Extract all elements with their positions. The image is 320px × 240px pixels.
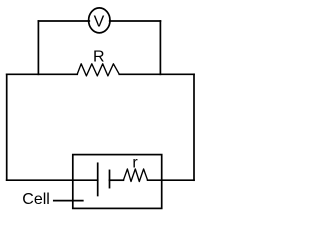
wire left vertical <box>6 74 8 180</box>
wire main left (to resistor R) <box>7 73 78 75</box>
wire left stub (voltmeter branch left vertical) <box>37 21 39 74</box>
wire bottom right (r to right wire) <box>148 179 194 181</box>
svg-text:R: R <box>93 48 105 65</box>
wire bottom left (to battery plate) <box>7 179 98 181</box>
wire top-right (voltmeter branch right horizontal) <box>110 20 161 22</box>
svg-text:r: r <box>132 155 138 172</box>
wire top-left (voltmeter branch left horizontal) <box>38 20 89 22</box>
voltmeter V1 circle <box>89 8 110 33</box>
resistor R zigzag <box>77 64 119 76</box>
battery short plate <box>109 170 111 187</box>
cell box outline <box>73 155 162 209</box>
wire main right (from resistor R) <box>119 73 194 75</box>
svg-text:V: V <box>94 14 105 31</box>
resistor r zigzag <box>123 169 147 182</box>
wire bottom middle (battery to r) <box>110 179 124 181</box>
svg-text:Cell: Cell <box>22 191 50 208</box>
battery long plate <box>97 163 99 195</box>
wire right stub (voltmeter branch right vertical) <box>159 21 161 74</box>
wire right vertical <box>193 74 195 180</box>
Cell label leader line <box>54 200 83 202</box>
